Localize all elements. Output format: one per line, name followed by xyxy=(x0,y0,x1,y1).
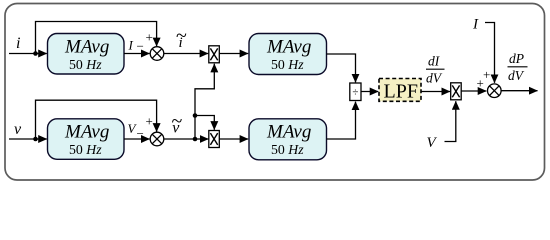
wire divider to LPF xyxy=(361,91,378,93)
wire M1 to MAvg2 xyxy=(219,53,248,55)
wire feedback i over MAvg xyxy=(36,22,157,54)
svg-text:+: + xyxy=(146,114,153,129)
svg-text:50 Hz: 50 Hz xyxy=(271,57,304,72)
node junction v-tilde xyxy=(193,137,198,142)
svg-text:50 Hz: 50 Hz xyxy=(69,142,102,157)
block MAvg 50Hz U4 (bottom-middle) xyxy=(249,119,327,160)
svg-text:−: − xyxy=(137,126,144,141)
svg-text:LPF: LPF xyxy=(384,81,418,103)
wire i-tilde to multiplier xyxy=(164,53,208,55)
summer S2 (v - V) xyxy=(150,132,164,146)
svg-text:V: V xyxy=(427,135,438,151)
svg-text:dV: dV xyxy=(426,71,443,86)
multiplier M1 (i~ x v~) xyxy=(209,46,220,63)
summer S3 (I + V*dI/dV) xyxy=(488,84,502,98)
label dP/dV fraction xyxy=(508,51,528,83)
outer figure frame xyxy=(5,4,545,181)
svg-text:I: I xyxy=(472,17,479,33)
wire i input xyxy=(9,53,47,55)
svg-text:MAvg: MAvg xyxy=(266,122,311,143)
node junction on i wire xyxy=(33,51,38,56)
wire v-tilde to multiplier M2 xyxy=(164,138,209,140)
wire output dP/dV xyxy=(501,90,537,92)
wire I to S3 xyxy=(485,23,495,83)
wire v-tilde riser to M1 xyxy=(195,64,214,139)
wire riser branch to M2 top xyxy=(195,116,214,130)
svg-text:−: − xyxy=(137,39,144,54)
wire MAvg2 to divider top xyxy=(327,54,356,82)
wire I from MAvg to summer xyxy=(124,53,150,55)
svg-text:MAvg: MAvg xyxy=(64,122,109,143)
svg-text:dI: dI xyxy=(428,54,441,69)
wire M3 to summer S3 xyxy=(461,90,486,92)
svg-text:MAvg: MAvg xyxy=(266,37,311,58)
summer S1 (i - I) xyxy=(150,47,164,61)
svg-text:50 Hz: 50 Hz xyxy=(69,57,102,72)
svg-text:+: + xyxy=(146,30,153,45)
svg-text:v: v xyxy=(14,121,22,138)
svg-text:+: + xyxy=(483,67,490,82)
multiplier M3 (dI/dV x V) xyxy=(451,83,462,100)
wire feedback v over MAvg xyxy=(36,100,157,139)
block MAvg 50Hz U1 (top-left) xyxy=(48,34,125,75)
svg-text:I: I xyxy=(128,38,134,53)
block MAvg 50Hz U2 (top-middle) xyxy=(249,34,327,75)
block LPF xyxy=(379,79,421,103)
svg-text:MAvg: MAvg xyxy=(64,37,109,58)
label dI/dV fraction xyxy=(426,54,445,86)
divider D1 xyxy=(350,83,361,101)
svg-text:÷: ÷ xyxy=(352,86,358,98)
svg-text:i: i xyxy=(16,35,20,52)
block MAvg 50Hz U3 (bottom-left) xyxy=(48,119,125,160)
wire LPF to multiplier M3 xyxy=(421,91,450,93)
multiplier M2 (v~ x v~) xyxy=(209,131,220,148)
svg-text:~: ~ xyxy=(172,111,183,133)
node junction on v wire xyxy=(33,137,38,142)
wire V from MAvg3 to summer xyxy=(124,138,150,140)
node junction on riser xyxy=(193,113,198,118)
svg-text:50 Hz: 50 Hz xyxy=(271,142,304,157)
svg-text:~: ~ xyxy=(176,25,187,47)
svg-text:dV: dV xyxy=(508,68,525,83)
wire MAvg4 to divider bottom xyxy=(327,102,356,139)
wire M2 to MAvg4 xyxy=(219,138,248,140)
svg-text:dP: dP xyxy=(509,51,524,66)
wire V to M3 xyxy=(445,101,456,141)
wire v input xyxy=(9,138,47,140)
